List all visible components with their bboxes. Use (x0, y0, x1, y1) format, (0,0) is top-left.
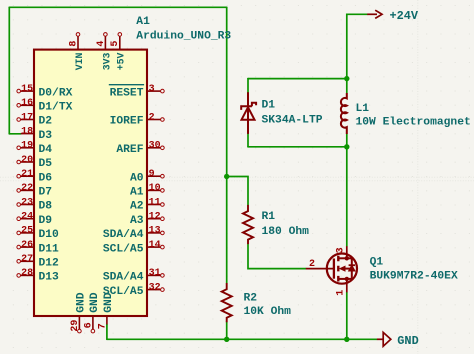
svg-text:A0: A0 (130, 172, 144, 184)
pin 11 A2 (130, 197, 164, 212)
svg-text:5: 5 (110, 41, 121, 47)
pin 26 D11 (17, 240, 59, 255)
svg-text:30: 30 (149, 141, 161, 152)
junction R1 branch (224, 174, 229, 179)
svg-text:7: 7 (97, 323, 108, 329)
svg-text:31: 31 (149, 268, 161, 279)
svg-text:AREF: AREF (116, 144, 143, 156)
svg-text:GND: GND (89, 292, 101, 313)
pin 18 D3 (21, 126, 52, 141)
svg-text:6: 6 (83, 322, 94, 328)
junction L1 bottom (344, 144, 349, 149)
diode D1 (241, 92, 256, 134)
inductor L1 (341, 93, 347, 134)
svg-text:27: 27 (21, 254, 33, 265)
svg-text:IOREF: IOREF (110, 116, 144, 128)
svg-text:19: 19 (21, 141, 33, 152)
svg-text:2: 2 (149, 112, 155, 123)
wire top horizontal (9, 6, 226, 8)
pin 30 AREF (116, 141, 164, 156)
svg-text:D8: D8 (39, 201, 53, 213)
svg-text:180 Ohm: 180 Ohm (262, 226, 310, 238)
transistor Q1 MOSFET (306, 246, 357, 292)
wire D1-L1 bottom (248, 146, 347, 148)
svg-text:A1: A1 (136, 16, 150, 28)
svg-text:D1: D1 (262, 100, 276, 112)
svg-text:SDA/A4: SDA/A4 (103, 272, 144, 284)
svg-text:D13: D13 (39, 272, 60, 284)
pin 32 SCL/A5 (103, 282, 164, 297)
svg-text:3: 3 (149, 84, 155, 95)
svg-text:24: 24 (21, 212, 33, 223)
svg-text:A2: A2 (130, 201, 144, 213)
svg-text:17: 17 (21, 112, 33, 123)
svg-text:29: 29 (70, 320, 81, 332)
pin 22 D7 (17, 183, 52, 198)
svg-text:A1: A1 (130, 187, 144, 199)
svg-text:23: 23 (21, 197, 33, 208)
svg-text:L1: L1 (356, 103, 370, 115)
wire D1 top lead (247, 79, 249, 93)
svg-text:D3: D3 (39, 130, 53, 142)
svg-text:Q1: Q1 (370, 257, 384, 269)
svg-text:+24V: +24V (390, 9, 419, 23)
svg-text:D6: D6 (39, 172, 53, 184)
svg-text:VIN: VIN (74, 52, 85, 70)
wire D1-L1 top (248, 78, 347, 80)
svg-text:11: 11 (149, 197, 161, 208)
svg-text:D11: D11 (39, 243, 60, 255)
pin 16 D1/TX (17, 98, 73, 113)
svg-text:28: 28 (21, 268, 33, 279)
svg-text:16: 16 (21, 98, 33, 109)
svg-text:R1: R1 (262, 211, 276, 223)
pin 3 RESET (109, 84, 164, 99)
wire +24V drop (347, 14, 367, 78)
svg-text:20: 20 (21, 155, 33, 166)
wire L1 top lead (346, 79, 348, 93)
pin 15 D0/RX (17, 84, 73, 99)
resistor R2 (222, 283, 232, 322)
svg-text:D7: D7 (39, 187, 53, 199)
wire L1 bottom to drain (346, 134, 348, 246)
svg-text:25: 25 (21, 226, 33, 237)
svg-text:22: 22 (21, 183, 33, 194)
svg-text:9: 9 (149, 169, 155, 180)
svg-text:+5V: +5V (116, 52, 127, 70)
pin 9 A0 (130, 169, 164, 184)
svg-text:4: 4 (96, 41, 107, 47)
pin 14 SCL/A5 (103, 240, 164, 255)
svg-text:SCL/A5: SCL/A5 (103, 243, 144, 255)
pin 21 D6 (17, 169, 52, 184)
svg-text:10K Ohm: 10K Ohm (244, 306, 292, 318)
pin 27 D12 (17, 254, 59, 269)
svg-text:21: 21 (21, 169, 33, 180)
pin 29 GND (70, 292, 88, 333)
svg-text:RESET: RESET (110, 87, 144, 99)
wire branch junction to R1 top (227, 177, 248, 206)
wire R2 bottom lead (226, 322, 228, 340)
svg-text:10W Electromagnet: 10W Electromagnet (356, 117, 471, 129)
svg-text:1: 1 (335, 290, 346, 296)
wire pin7 drop (106, 324, 108, 339)
Arduino U1 body A1 (34, 50, 147, 316)
pin 12 A3 (130, 212, 164, 227)
svg-text:32: 32 (149, 282, 161, 293)
power +24V symbol (367, 10, 382, 18)
svg-text:A3: A3 (130, 215, 144, 227)
pin 7 GND (97, 292, 115, 329)
pin 20 D5 (17, 155, 52, 170)
svg-text:D10: D10 (39, 229, 60, 241)
pin 17 D2 (17, 112, 52, 127)
svg-text:26: 26 (21, 240, 33, 251)
wire R1 bottom to gate (248, 244, 306, 268)
svg-text:8: 8 (68, 41, 79, 47)
pin 24 D9 (17, 212, 52, 227)
svg-text:Arduino_UNO_R3: Arduino_UNO_R3 (136, 31, 231, 43)
svg-text:18: 18 (21, 126, 33, 137)
svg-text:D12: D12 (39, 258, 60, 270)
pin 8 VIN (68, 33, 85, 71)
svg-text:D0/RX: D0/RX (39, 87, 73, 99)
pin 23 D8 (17, 197, 52, 212)
pin 2 IOREF (110, 112, 165, 127)
svg-text:D2: D2 (39, 116, 53, 128)
svg-text:15: 15 (21, 84, 33, 95)
svg-text:3: 3 (335, 247, 346, 253)
svg-text:GND: GND (76, 292, 88, 313)
power GND symbol (377, 332, 391, 346)
pin 5 +5V (110, 33, 127, 71)
pin 19 D4 (17, 141, 52, 156)
pin 25 D10 (17, 226, 59, 241)
pin 10 A1 (130, 183, 164, 198)
pin 28 D13 (17, 268, 59, 283)
svg-text:12: 12 (149, 212, 161, 223)
svg-text:D5: D5 (39, 158, 53, 170)
svg-text:D1/TX: D1/TX (39, 102, 73, 114)
svg-text:GND: GND (103, 292, 115, 313)
junction L1 top (344, 76, 349, 81)
svg-text:D9: D9 (39, 215, 53, 227)
svg-text:SK34A-LTP: SK34A-LTP (262, 115, 323, 127)
svg-text:3V3: 3V3 (101, 52, 112, 70)
wire D3 to left rail (9, 133, 20, 135)
pin 13 SDA/A4 (103, 226, 164, 241)
wire D1 bottom lead (247, 134, 249, 147)
wire GND rail (107, 338, 377, 340)
svg-text:R2: R2 (244, 292, 258, 304)
junction Q1 source gnd (344, 337, 349, 342)
wire source to ground rail (346, 292, 348, 339)
junction R2 gnd (224, 337, 229, 342)
pin 4 3V3 (96, 33, 113, 71)
svg-text:SDA/A4: SDA/A4 (103, 229, 144, 241)
svg-text:14: 14 (149, 240, 161, 251)
resistor R1 (243, 205, 253, 244)
wire left vertical rail (8, 7, 10, 134)
wire vertical x=226.7 down to R2 (226, 7, 228, 283)
svg-text:13: 13 (149, 226, 161, 237)
pin 31 SDA/A4 (103, 268, 164, 283)
svg-text:D4: D4 (39, 144, 53, 156)
svg-text:10: 10 (149, 183, 161, 194)
svg-text:GND: GND (397, 334, 418, 348)
svg-text:BUK9M7R2-40EX: BUK9M7R2-40EX (370, 271, 458, 283)
svg-text:2: 2 (309, 259, 315, 270)
pin 6 GND (83, 292, 101, 333)
